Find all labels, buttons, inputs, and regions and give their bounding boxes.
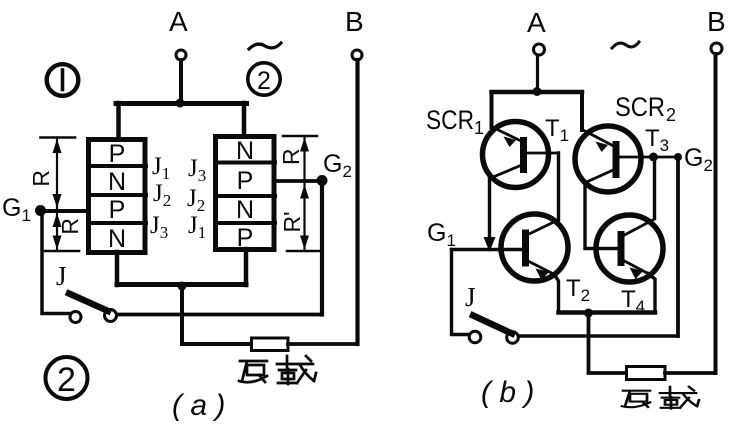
node bottom junction [178, 282, 187, 291]
SCR1 PNPN stack [88, 140, 146, 254]
svg-text:J2: J2 [153, 180, 171, 210]
switch right contact [105, 310, 117, 322]
wire A to top bus [179, 60, 183, 103]
wire switch to G2 line [117, 313, 322, 317]
svg-text:R': R' [279, 211, 305, 232]
load resistor (b) [627, 367, 666, 380]
node A-bus junction [176, 99, 185, 108]
wire G1 down to switch [42, 210, 70, 314]
wire B down to load [355, 60, 359, 344]
svg-text:( a ): ( a ) [172, 389, 225, 422]
wire G2 down [320, 181, 324, 315]
wire top bus [116, 101, 247, 106]
svg-text:P: P [109, 196, 126, 224]
svg-text:R: R [278, 148, 304, 165]
wire G1 down to switch (b) [452, 250, 469, 335]
wire G1 to T2 base [452, 248, 523, 251]
svg-text:2: 2 [257, 67, 271, 95]
svg-text:G2: G2 [684, 144, 713, 175]
svg-text:B: B [707, 6, 726, 37]
wire emitter bus (b) [559, 310, 656, 315]
svg-text:SCR: SCR [615, 92, 665, 122]
transistor T1 [483, 122, 559, 188]
svg-text:A: A [169, 6, 188, 37]
node G1 [35, 205, 46, 216]
transistor T4 [596, 215, 663, 282]
switch left contact [70, 312, 81, 323]
svg-text:J1: J1 [188, 212, 206, 242]
transistor T3 [575, 126, 678, 192]
wire T2 emitter down to emitter bus [555, 275, 559, 313]
dimension R upper-left [41, 138, 76, 210]
transistor T2 [501, 214, 568, 281]
wire A to bus (b) [536, 55, 539, 92]
AC source symbol ~ [249, 43, 281, 49]
svg-text:T1: T1 [545, 115, 569, 145]
wire G2 down to switch wire (b) [676, 157, 680, 336]
svg-text:T2: T2 [566, 275, 590, 305]
svg-text:G1: G1 [427, 219, 456, 250]
node T3 base / T4 collector junction [649, 153, 658, 162]
wire T1 collector down to G1 line [484, 177, 496, 252]
svg-text:SCR: SCR [426, 105, 474, 135]
wire G1 to stack [40, 209, 88, 213]
svg-text:R: R [57, 218, 83, 235]
terminal B (b) [711, 43, 722, 54]
svg-text:2: 2 [57, 361, 76, 399]
wire bus down to SCR1 stack [116, 103, 121, 138]
wire switch to G2 (b) [519, 334, 678, 337]
switch lever (b) [473, 316, 512, 334]
load label (b) [622, 387, 699, 409]
wire T4 collector up to T3 base [653, 157, 656, 218]
wire T3 collector down to T4 base [585, 182, 618, 249]
svg-text:N: N [236, 196, 254, 224]
wire top bus (b) [492, 90, 583, 95]
dimension R upper-right [283, 136, 317, 179]
wire B down to load (b) [714, 54, 718, 373]
svg-text:2: 2 [666, 105, 676, 125]
svg-text:P: P [109, 140, 126, 168]
label SCR2 [615, 92, 676, 125]
dimension R-prime lower-right [287, 183, 321, 251]
wire T1 base down to T2 collector [557, 153, 560, 220]
circled number 2 (top) [248, 63, 280, 95]
svg-text:T3: T3 [645, 125, 669, 155]
dimension R lower-left [45, 212, 79, 251]
wire T4 emitter down to emitter bus [648, 274, 655, 313]
svg-text:G2: G2 [323, 150, 352, 181]
svg-text:N: N [108, 168, 126, 196]
terminal A (b) [534, 44, 545, 55]
switch right contact (b) [507, 332, 519, 344]
label SCR1 [426, 105, 484, 138]
svg-text:N: N [236, 137, 254, 165]
svg-text:J: J [56, 261, 67, 291]
svg-text:J1: J1 [152, 153, 170, 183]
circled number 2 (bottom) [46, 357, 88, 399]
switch lever [69, 294, 108, 312]
wire load to B line [288, 342, 358, 346]
svg-text:J3: J3 [150, 212, 168, 242]
svg-text:J: J [465, 282, 476, 312]
load resistor (a) [252, 338, 289, 351]
wire load to B line (b) [665, 371, 716, 375]
terminal B [352, 50, 362, 60]
wire bus down to T1 emitter [490, 92, 494, 127]
switch left contact (b) [469, 331, 481, 343]
svg-text:G1: G1 [2, 194, 31, 225]
node G2 (b) [674, 153, 682, 161]
AC source symbol ~ (b) [612, 42, 639, 48]
svg-text:R: R [28, 170, 54, 187]
wire SCR1 stack to bottom bus [115, 252, 120, 285]
svg-text:( b ): ( b ) [481, 376, 534, 409]
node load junction (b) [584, 309, 593, 318]
node G2 [317, 175, 328, 186]
svg-text:N: N [108, 225, 126, 253]
wire junction down to load [182, 286, 252, 344]
svg-text:B: B [345, 6, 364, 37]
wire bus down to SCR2 stack [242, 103, 247, 135]
wire junction down to load (b) [589, 313, 627, 373]
SCR2 NPNP stack [215, 137, 275, 253]
node A junction (b) [533, 87, 542, 96]
svg-text:J3: J3 [188, 155, 206, 185]
wire bus down to T3 emitter [580, 92, 584, 130]
svg-text:J2: J2 [187, 185, 205, 215]
terminal A [176, 50, 186, 60]
svg-text:A: A [527, 7, 546, 38]
wire SCR2 stack to bottom bus [244, 249, 249, 285]
circled number 1 [47, 64, 79, 96]
svg-text:P: P [237, 167, 254, 195]
svg-text:1: 1 [474, 118, 484, 138]
wire bottom bus [117, 282, 246, 287]
wire G2 from stack [274, 179, 322, 183]
load label (a) [239, 356, 316, 384]
